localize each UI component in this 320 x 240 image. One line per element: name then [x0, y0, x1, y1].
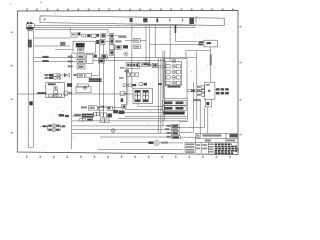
svg-text:JR: JR [43, 17, 46, 21]
